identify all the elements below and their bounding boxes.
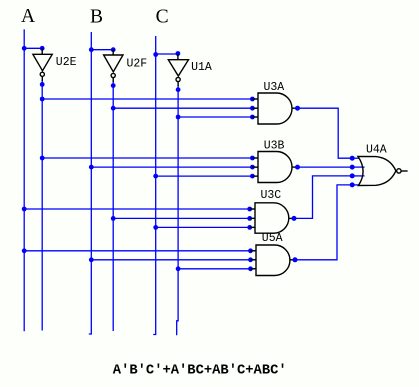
AND gate U5A	[256, 245, 290, 276]
inverter U2F	[104, 50, 123, 82]
wire: B to U5A input 2	[91, 259, 256, 261]
inverter U1A	[168, 54, 188, 86]
node: U1A output pin	[176, 87, 181, 92]
svg-text:B: B	[90, 6, 103, 27]
wire: input column A	[23, 29, 25, 331]
wire: C-bar to U3A input 3	[178, 116, 258, 118]
wire: column A-bar from U2E output	[41, 80, 43, 331]
wire: A to U2E input	[24, 47, 42, 49]
node: U4A input pin 2	[350, 165, 355, 170]
wire: B to U2F input	[91, 49, 113, 51]
svg-text:A: A	[21, 6, 35, 27]
node: junction on B at U2F tap	[89, 47, 94, 52]
svg-text:U2E: U2E	[56, 56, 77, 69]
AND gate U3B	[258, 152, 292, 183]
node: U2F input pin	[111, 47, 116, 52]
wire: input column C	[153, 36, 156, 335]
wire: A-bar to U3B input 1	[42, 157, 258, 159]
node: U4A input pin 1	[350, 156, 355, 161]
wire: B-bar to U3A input 2	[113, 107, 258, 109]
wire: U3C output to U4A input 3	[294, 176, 352, 219]
wire: A to U3C input 1	[24, 208, 255, 210]
node: U3A output	[295, 106, 300, 111]
wire: column C-bar from U1A output (with bottom jog)	[177, 85, 178, 335]
node: U4A input pin 3	[350, 173, 355, 178]
svg-text:U2F: U2F	[127, 58, 148, 71]
AND gate U3C	[255, 203, 289, 233]
wire: U5A output to U4A input 4	[295, 185, 352, 260]
svg-text:U4A: U4A	[366, 144, 387, 157]
node: U1A input pin	[176, 51, 181, 56]
wire: input column B	[89, 32, 92, 334]
wire: column B-bar from U2F output	[112, 81, 114, 331]
node: U3B output	[295, 165, 300, 170]
node: junction on C at U1A tap	[153, 52, 158, 57]
AND gate U3A	[258, 93, 292, 124]
wire: C to U1A input	[156, 53, 178, 55]
wire: A to U5A input 1	[24, 250, 256, 252]
wire: B-bar to U3C input 2	[113, 217, 255, 219]
node: U3C output	[292, 216, 297, 221]
wire: C-bar to U5A input 3	[178, 268, 256, 270]
node: junction on A at U2E tap	[22, 46, 27, 51]
wire: U3B output to U4A input 2	[298, 166, 353, 168]
node: U4A input pin 4	[350, 182, 355, 187]
wire: C to U3B input 3	[156, 175, 258, 177]
NOR gate U4A	[358, 156, 408, 185]
svg-text:C: C	[156, 6, 169, 27]
svg-text:U3B: U3B	[264, 140, 285, 153]
inverter U2E	[33, 48, 52, 81]
wire: C to U3C input 3	[156, 226, 255, 228]
wire: B to U3B input 2	[91, 166, 258, 168]
svg-text:U1A: U1A	[191, 61, 212, 74]
svg-text:U5A: U5A	[262, 232, 283, 245]
node: U5A output	[293, 257, 298, 262]
svg-text:U3A: U3A	[264, 81, 285, 94]
node: U2E input pin	[40, 46, 45, 51]
svg-text:U3C: U3C	[261, 189, 282, 202]
wire: A-bar to U3A input 1	[42, 98, 258, 100]
wire: U3A output to U4A input 1	[298, 108, 353, 158]
svg-text:A'B'C'+A'BC+AB'C+ABC': A'B'C'+A'BC+AB'C+ABC'	[113, 363, 287, 379]
node: U2F output pin	[111, 83, 116, 88]
node: U2E output pin	[40, 82, 45, 87]
